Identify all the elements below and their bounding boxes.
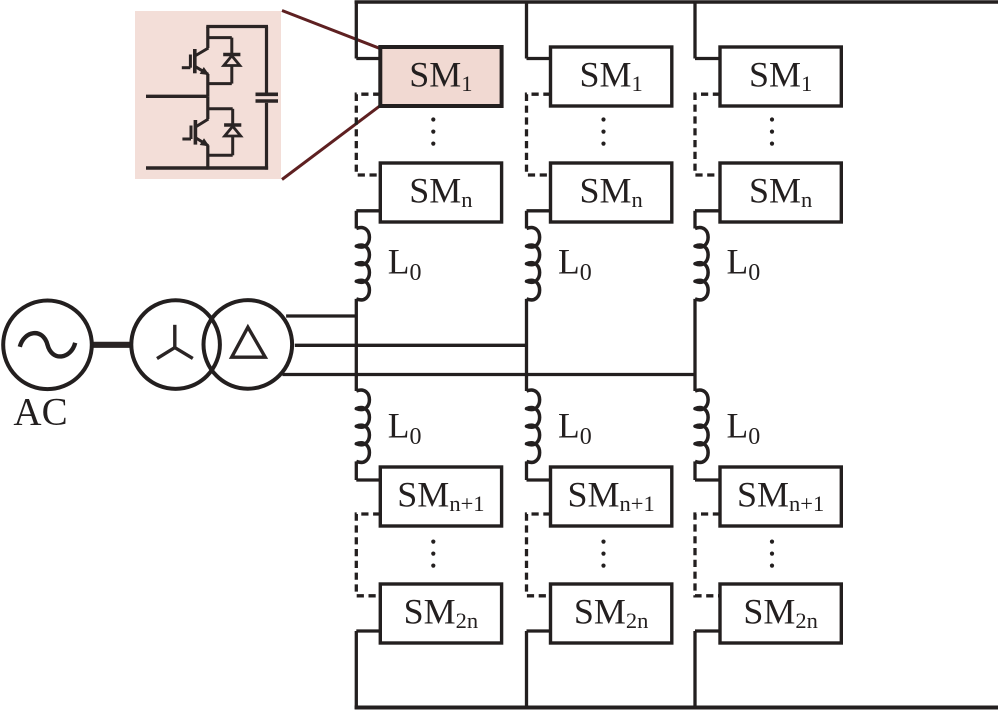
svg-text:AC: AC [13,391,67,434]
